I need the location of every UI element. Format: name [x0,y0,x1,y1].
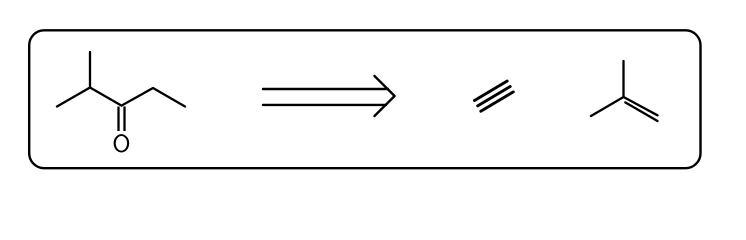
alkyne triple bond line 3 [481,92,514,111]
border frame [29,30,700,168]
alkyne triple bond line 2 [478,87,511,106]
ketone skeleton (2-methyl-3-pentanone) [57,52,185,107]
alkene double bond inner line [625,102,657,121]
retrosynthesis arrow shaft top line [263,88,388,90]
alkene skeleton (2-methylpropene) [591,61,658,116]
carbonyl C=O double bond [119,107,125,132]
O label [114,134,130,152]
alkyne triple bond line 1 [475,81,508,101]
retrosynthesis arrow open head [375,76,395,116]
retrosynthesis arrow shaft bottom line [263,104,386,106]
